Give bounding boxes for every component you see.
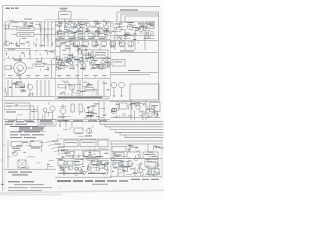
- wire left bus bottom: [4, 96, 55, 98]
- wire c160h23: [98, 167, 105, 169]
- wire uprighth3: [131, 24, 136, 26]
- wire Q6 collector: [106, 21, 108, 25]
- capacitor r160c54: [148, 172, 152, 176]
- wire section vert x111: [110, 141, 112, 176]
- wire c160v27: [96, 163, 98, 167]
- wire v23: [130, 100, 132, 120]
- wire r160v31: [153, 173, 155, 176]
- wire step a drop: [29, 103, 31, 120]
- wire r160v26: [148, 170, 150, 173]
- label l1401: [31, 141, 34, 142]
- wire r100v22: [157, 110, 159, 116]
- label Q5: [95, 30, 100, 33]
- label terminal 1: [8, 74, 13, 77]
- wire Q7 base: [113, 28, 116, 30]
- note bottom C1e: [107, 180, 117, 181]
- wire v13: [40, 80, 42, 97]
- wire l100h10: [6, 102, 13, 104]
- wire border stub 4: [3, 74, 6, 76]
- border top wire: [3, 5, 161, 8]
- label cmid807: [107, 89, 110, 90]
- wire r160h44: [119, 172, 122, 174]
- wire uplefth16: [27, 25, 33, 27]
- wire rowbandv23: [137, 41, 139, 43]
- label upright4: [132, 26, 138, 29]
- wire cable run 1: [95, 121, 164, 123]
- wire r100v46: [142, 103, 144, 107]
- label net f: [120, 50, 134, 53]
- wire leftband60v6: [23, 67, 25, 70]
- wire step c: [4, 109, 38, 111]
- wire l100h3: [45, 111, 53, 113]
- wire cb bottom: [55, 176, 112, 178]
- capacitor r100c10: [130, 103, 133, 106]
- wire center bus b: [55, 31, 110, 33]
- jack J1: [5, 25, 9, 29]
- diode D6: [104, 166, 108, 170]
- label upcen18: [72, 26, 76, 29]
- wire l100v5: [48, 112, 50, 117]
- wire r100v18: [116, 116, 118, 118]
- label tubrow28: [67, 58, 71, 61]
- label c16052: [102, 164, 106, 165]
- center text b: [88, 173, 106, 174]
- component Z3: [75, 160, 83, 165]
- wire cb top: [56, 158, 110, 160]
- wire cable run 4: [110, 129, 164, 131]
- label c1007: [87, 115, 92, 118]
- wire uprightv25: [116, 34, 118, 38]
- wire strip4055v12: [43, 39, 45, 41]
- transistor Q20: [127, 161, 133, 167]
- capacitor C3: [65, 42, 71, 45]
- label S1 note a: [8, 172, 18, 173]
- wire C14 top: [81, 59, 83, 61]
- wire leftband60v1: [31, 63, 33, 66]
- wire c120v2: [89, 127, 91, 132]
- relay K1: [146, 22, 154, 29]
- capacitor upcenc2: [56, 38, 59, 41]
- wire r100v50: [153, 110, 155, 114]
- wire mid bus: [4, 100, 130, 102]
- wire Q1 collector: [59, 21, 61, 23]
- wire upleftv4: [39, 22, 41, 27]
- label terminal 5: [44, 74, 49, 77]
- transistor Q14: [60, 108, 66, 114]
- label r10037: [134, 104, 137, 107]
- wire strip4055v5: [44, 28, 46, 33]
- label r1604: [133, 173, 138, 174]
- wire terminal stub 4: [36, 77, 38, 79]
- wire v18: [103, 80, 105, 96]
- label upright40: [150, 24, 154, 27]
- callout text 2: [55, 143, 62, 146]
- wire cable stub 4: [109, 127, 111, 130]
- capacitor c160c56: [63, 173, 66, 176]
- capacitor C1: [15, 42, 18, 47]
- label midband9: [88, 57, 93, 58]
- paper tint interior: [3, 7, 162, 191]
- label tubrow44: [94, 59, 97, 62]
- note row 2a: [5, 123, 13, 126]
- capacitor r100c31: [151, 106, 154, 109]
- callout lead 5: [57, 153, 63, 155]
- label midband14: [76, 49, 81, 52]
- wire r160h57: [116, 160, 121, 162]
- wire c140v4: [94, 148, 96, 152]
- capacitor r160c8: [147, 159, 149, 161]
- wire r100v5: [141, 113, 143, 117]
- wire uprightv41: [125, 36, 127, 38]
- wire c160v30: [90, 170, 92, 173]
- wire v16: [79, 80, 81, 96]
- label FL1: [114, 61, 123, 64]
- wire rowbandv14: [72, 43, 74, 48]
- label C12: [58, 67, 63, 70]
- wire c160v11: [68, 165, 70, 171]
- callout lead 2: [48, 144, 54, 146]
- wire cmid80v1: [68, 93, 70, 95]
- label C5: [83, 45, 88, 48]
- label cmid8010: [67, 83, 70, 86]
- label S1 note2: [12, 174, 28, 175]
- wire Q15 e: [90, 112, 92, 120]
- capacitor C11: [47, 66, 50, 71]
- label midband13: [78, 48, 81, 49]
- wire tubrowh24: [77, 60, 84, 62]
- label c10011: [102, 114, 106, 117]
- wire r100v4: [111, 109, 113, 112]
- wire upcenv50: [83, 39, 85, 41]
- wire c160v33: [97, 159, 99, 161]
- label C6: [92, 45, 97, 48]
- wire c160h5: [100, 160, 103, 162]
- wire upcenh4: [57, 33, 62, 35]
- label c16014: [92, 171, 95, 174]
- label c14013: [104, 153, 108, 154]
- capacitor upcenc38: [80, 27, 84, 31]
- transistor Q2: [67, 24, 71, 28]
- label tubrow4: [92, 66, 94, 69]
- wire r160h20: [119, 165, 124, 167]
- wire terminal stub 5: [45, 77, 47, 79]
- capacitor uprightc1: [125, 34, 128, 37]
- wire v11: [11, 80, 13, 97]
- wire rowbandv10: [71, 43, 73, 45]
- resistor R17: [30, 141, 42, 147]
- wire r160v46: [158, 172, 160, 175]
- wire right bus h: [110, 101, 160, 103]
- tube V1 pin top: [19, 58, 21, 62]
- label net g: [128, 69, 140, 72]
- wire c140v2: [96, 157, 98, 159]
- capacitor c160c16: [64, 161, 68, 165]
- wire c120h6: [63, 129, 67, 131]
- label upcen65: [79, 33, 83, 36]
- wire c140v5: [62, 155, 64, 158]
- wire terminal stub 2: [18, 77, 20, 79]
- label bus net 4: [95, 22, 99, 25]
- wire upcenv26: [73, 33, 75, 36]
- capacitor r160c7: [147, 165, 150, 168]
- capacitor upcenc62: [85, 24, 87, 26]
- wire upleftv18: [23, 21, 25, 27]
- wire rowbandv2: [73, 42, 75, 44]
- label tubrow21: [56, 61, 62, 64]
- wire uprightv30: [149, 34, 151, 38]
- wire v26: [145, 100, 147, 120]
- capacitor r100c33: [146, 110, 150, 114]
- resistor R14: [120, 103, 128, 109]
- capacitor uprightc19: [151, 23, 154, 26]
- wire v28: [65, 120, 67, 127]
- wire cable run 7: [125, 137, 164, 139]
- wire r160v58: [117, 173, 119, 176]
- wire uprightv13: [135, 27, 137, 31]
- label c16020: [64, 166, 69, 169]
- wire midbandv11: [70, 59, 72, 60]
- label r10041: [129, 103, 131, 106]
- wire c160h13: [91, 161, 97, 163]
- wire upcenh20: [79, 27, 85, 29]
- wire rowbandv26: [119, 41, 121, 45]
- wire r140v6: [138, 154, 140, 157]
- wire v29: [71, 122, 73, 129]
- wire center bus2: [55, 98, 110, 100]
- wire rowbandv25: [79, 45, 81, 47]
- wire r160h24: [124, 160, 130, 162]
- capacitor upcenc8: [106, 35, 108, 37]
- capacitor c160c58: [63, 171, 65, 173]
- wire cmid80h8: [87, 89, 95, 91]
- wire r160v6: [118, 162, 120, 166]
- wire tubrowv20: [97, 65, 99, 69]
- wire net A: [117, 11, 159, 13]
- label upright48: [133, 38, 136, 41]
- wire r140h18: [148, 153, 154, 155]
- label in U2: [151, 104, 158, 107]
- note box text: [40, 121, 54, 124]
- wire c100v10: [91, 109, 93, 112]
- wire upcenh35: [64, 32, 68, 34]
- label Q7: [115, 23, 122, 26]
- label dense row b: [66, 61, 72, 62]
- label c16055: [82, 165, 85, 168]
- label in A2: [82, 141, 95, 144]
- label left net: [6, 111, 16, 114]
- label c16057: [75, 160, 79, 163]
- wire r160h23: [125, 166, 130, 168]
- wire tubrowv53: [73, 65, 75, 69]
- resistor R11: [85, 88, 94, 91]
- parts list row 3a: [10, 133, 18, 136]
- transistor Q4: [86, 23, 90, 27]
- wire midbandv16: [89, 51, 91, 57]
- label cmid8025: [64, 93, 66, 96]
- wire right bus d: [110, 35, 155, 37]
- label R16: [12, 147, 20, 150]
- wire lmid80h10: [15, 84, 19, 86]
- label bus net 1: [59, 22, 63, 25]
- wire leftmidv2: [13, 57, 15, 60]
- wire upcenv39: [56, 31, 58, 35]
- wire uplefth3: [25, 25, 30, 27]
- note bottom C1f: [119, 180, 128, 181]
- callout text 1: [52, 140, 59, 143]
- bus band label 5: [73, 120, 83, 121]
- wire tubrowv14: [82, 60, 84, 65]
- capacitor r100c19: [144, 103, 146, 105]
- label c14026: [88, 155, 92, 156]
- capacitor c160c17: [83, 171, 86, 174]
- wire C13 bot: [70, 65, 72, 67]
- label R17: [31, 147, 40, 150]
- label cmid8019: [103, 82, 108, 85]
- label R8: [36, 60, 42, 63]
- note bottom L2: [14, 183, 44, 186]
- label inside R1: [19, 27, 31, 30]
- wire midbandh19: [79, 57, 83, 59]
- label midband20: [81, 56, 83, 59]
- wire upcenv52: [75, 26, 77, 29]
- wire lmid80v14: [27, 83, 29, 88]
- wire leftmidv6: [5, 52, 7, 55]
- wire uprighth49: [113, 27, 120, 29]
- label r14023: [145, 153, 149, 156]
- wire l100h4: [17, 114, 23, 116]
- wire midbandh6: [71, 56, 77, 58]
- label inside R2: [19, 33, 31, 36]
- wire uprighth51: [128, 35, 133, 37]
- wire tubrowv55: [59, 69, 61, 70]
- label c1009: [90, 115, 94, 118]
- label C7: [101, 45, 106, 48]
- wire rowbandv1: [75, 44, 77, 47]
- capacitor c160c49: [59, 166, 61, 168]
- switch S1 cross: [18, 160, 26, 168]
- capacitor r100c34: [116, 108, 119, 111]
- callout lead 4: [54, 150, 60, 152]
- wire C13 top: [70, 59, 72, 61]
- wire upleft2v5: [6, 40, 8, 46]
- wire c160v46: [91, 166, 93, 169]
- diode D4: [87, 167, 91, 171]
- capacitor r160c41: [155, 162, 159, 166]
- label l14010: [16, 144, 21, 147]
- wire v33: [117, 167, 119, 176]
- note bottom L4: [8, 189, 42, 192]
- wire r140v2: [152, 146, 154, 151]
- wire Q4 emitter: [87, 27, 89, 32]
- label Q8: [127, 21, 134, 24]
- component Z8: [148, 169, 159, 175]
- label C10: [128, 45, 133, 48]
- wire module row top: [56, 138, 110, 140]
- wire v20: [44, 112, 46, 120]
- wire lmid80h7: [16, 85, 21, 87]
- wire leftmidv13: [36, 58, 38, 60]
- transistor Q7: [116, 26, 122, 32]
- wire upcenh15: [97, 29, 101, 31]
- wire tubrowh30: [94, 64, 100, 66]
- label lmid8012: [14, 82, 17, 83]
- note bottom L3a: [8, 186, 28, 189]
- callout lead 3: [51, 147, 57, 149]
- wire leftband60v10: [10, 65, 12, 70]
- wire tubrowv8: [79, 60, 81, 63]
- wire rowbandv9: [130, 41, 132, 45]
- wire r100h17: [115, 104, 120, 106]
- wire Q10 emitter: [29, 90, 31, 97]
- label rowband19: [119, 43, 122, 44]
- wire upcenv1: [103, 24, 105, 27]
- capacitor C5: [83, 42, 89, 45]
- wire r100h36: [139, 114, 142, 116]
- wire upleftv12: [8, 23, 10, 27]
- capacitor tubrowc11: [56, 56, 59, 59]
- wire upcenv37: [64, 21, 66, 27]
- wire upleft2v4: [35, 44, 37, 47]
- wire C15 bot: [92, 65, 94, 67]
- wire c160h47: [72, 161, 75, 163]
- capacitor upcenc24: [55, 24, 57, 26]
- transistor Q16: [111, 108, 117, 114]
- wire uprightv6: [119, 23, 121, 28]
- capacitor tubrowc41: [61, 62, 63, 64]
- wire c160h15: [72, 164, 80, 166]
- resistor R16: [11, 142, 22, 147]
- note row 1c: [26, 121, 35, 122]
- wire midbandv7: [56, 57, 58, 60]
- capacitor r100c23: [136, 103, 139, 106]
- wire lmid80h16: [20, 89, 25, 91]
- wire c140h15: [79, 155, 84, 157]
- parts list row 1c: [19, 129, 43, 130]
- resistor R1: [17, 27, 34, 31]
- wire cmid80h4: [74, 92, 79, 94]
- capacitor r100c26: [123, 114, 126, 117]
- label r10012: [154, 106, 156, 107]
- wire r160h37: [125, 166, 129, 168]
- wire r160h21: [118, 168, 124, 170]
- wire l160v3: [47, 165, 49, 169]
- label upcen5: [65, 28, 68, 31]
- wire r140h16: [155, 147, 160, 149]
- label c1006: [80, 111, 83, 114]
- wire l100v2: [48, 102, 50, 105]
- capacitor c160c40: [97, 161, 100, 164]
- label C4: [74, 45, 79, 48]
- label c10012: [91, 106, 96, 107]
- wire c100h17: [99, 108, 105, 110]
- transistor Q12: [50, 106, 55, 111]
- capacitor tubrowc7: [56, 67, 59, 70]
- wire upleftv7: [31, 25, 33, 27]
- wire r100v21: [138, 108, 140, 113]
- label upleft22: [17, 45, 20, 46]
- label rowband5: [59, 42, 64, 45]
- wire uprighth16: [130, 29, 133, 31]
- wire uprighth31: [153, 36, 155, 38]
- label rowband22: [69, 40, 73, 43]
- wire l100v6: [16, 117, 18, 120]
- label Q14: [58, 116, 65, 119]
- wire r100v7: [131, 107, 133, 110]
- label r10029: [113, 107, 117, 110]
- capacitor uprightc55: [151, 32, 154, 35]
- wire uprightv24: [147, 33, 149, 38]
- transistor Q3: [77, 25, 81, 29]
